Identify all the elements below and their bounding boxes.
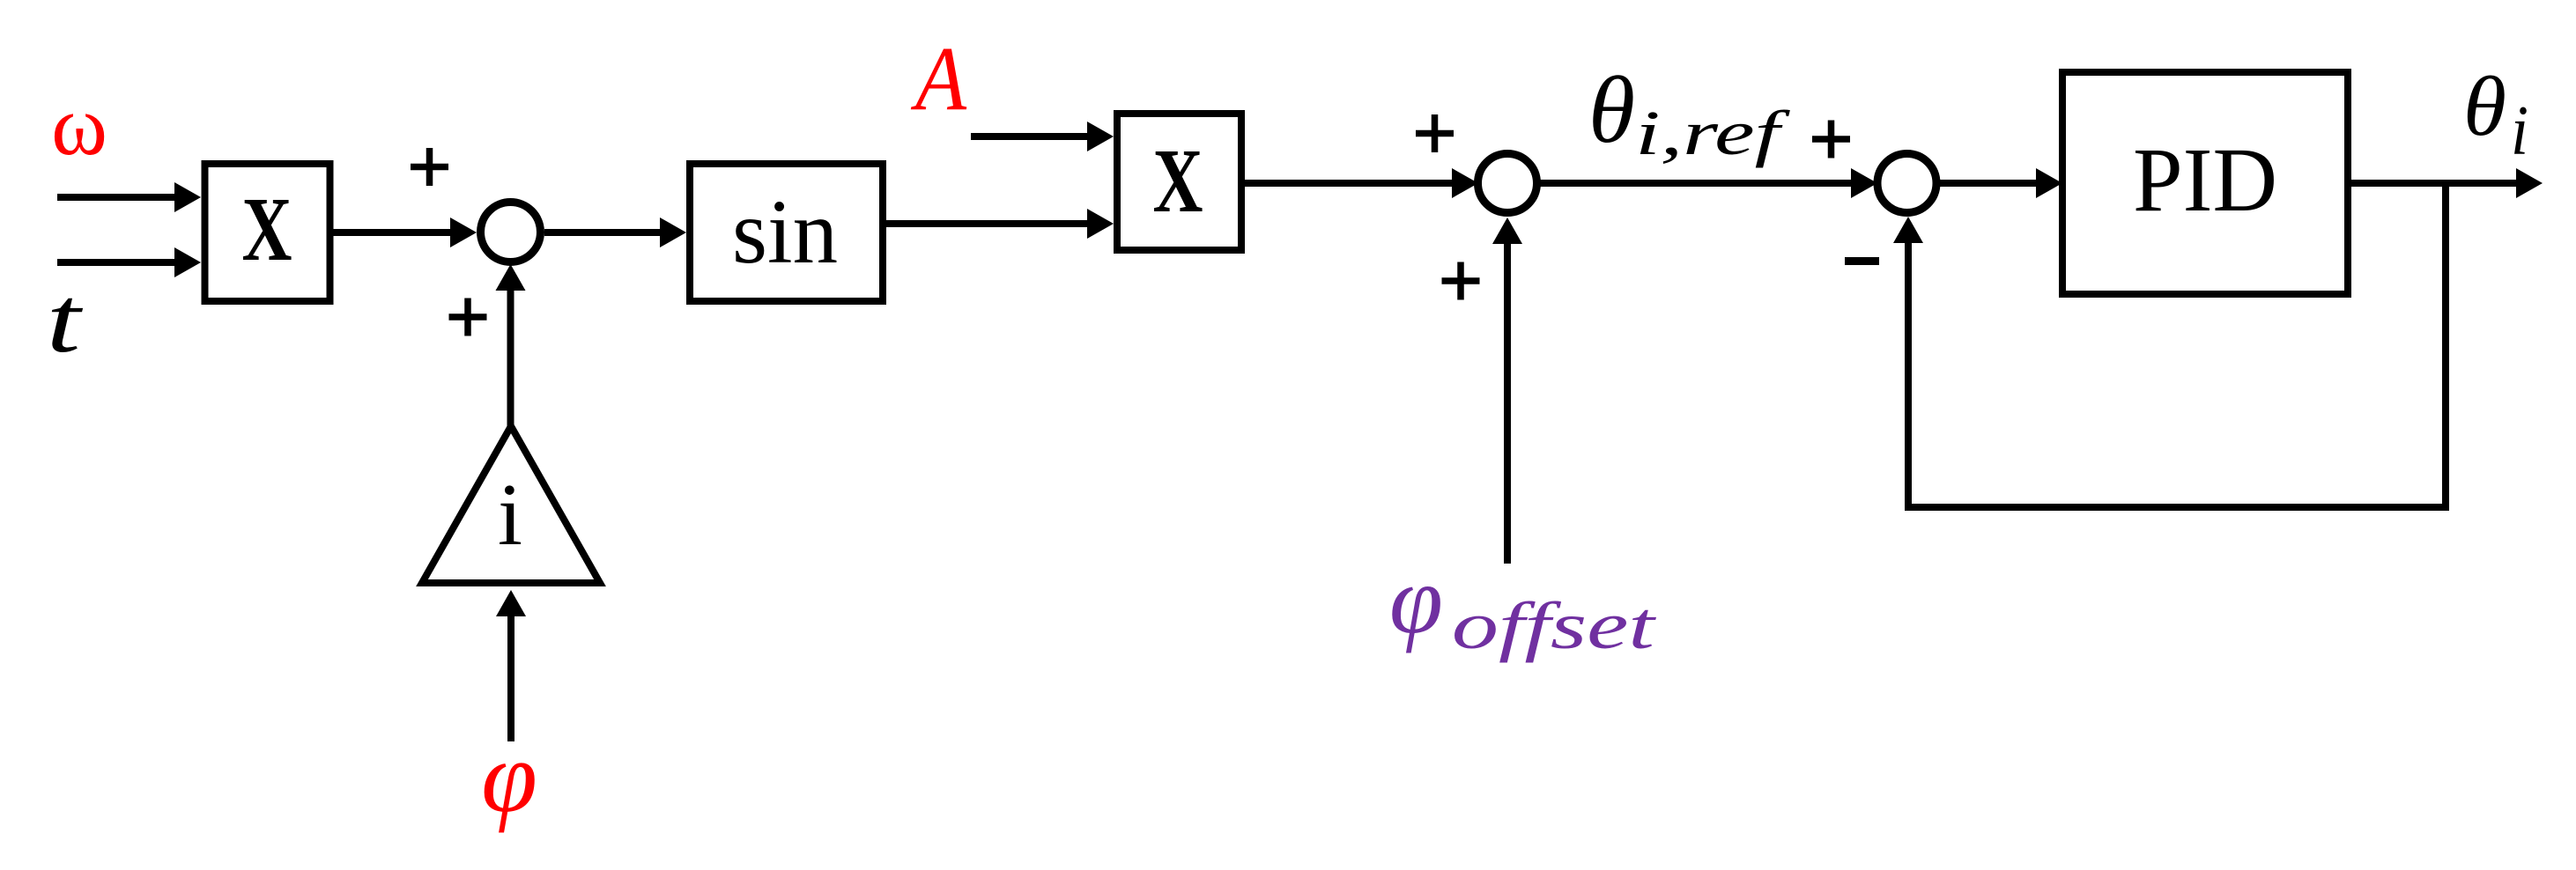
svg-text:t: t <box>47 267 83 372</box>
svg-text:sin: sin <box>732 181 838 283</box>
svg-text:φ: φ <box>481 721 537 833</box>
svg-text:ω: ω <box>51 78 107 173</box>
svg-text:θi: θi <box>2463 59 2528 170</box>
svg-text:φoffset: φoffset <box>1389 546 1656 663</box>
svg-text:X: X <box>242 179 292 280</box>
svg-text:X: X <box>1153 130 1203 232</box>
svg-text:i: i <box>498 465 522 564</box>
svg-text:θi,ref: θi,ref <box>1588 58 1791 168</box>
svg-text:A: A <box>911 28 967 129</box>
svg-text:PID: PID <box>2133 129 2277 231</box>
